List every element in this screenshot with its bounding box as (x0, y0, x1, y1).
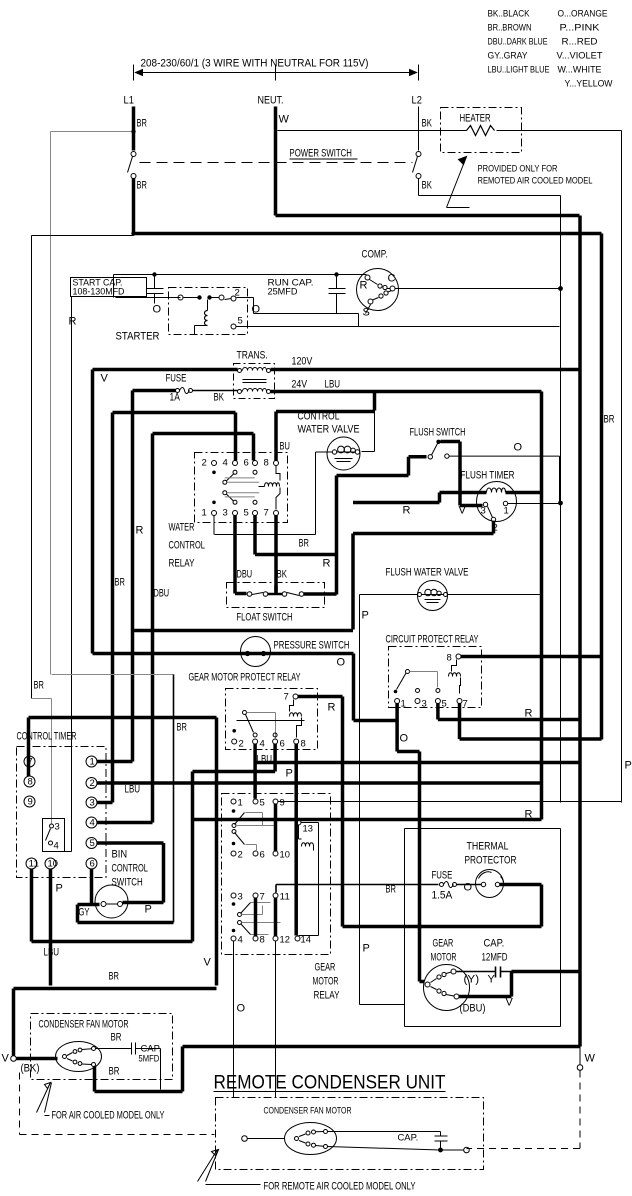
wire 120V left V (93, 370, 238, 654)
wire timer2 LBU long (97, 781, 542, 785)
svg-text:FLUSH SWITCH: FLUSH SWITCH (410, 427, 466, 439)
svg-text:R: R (323, 558, 331, 570)
wire pin3 DBU down (233, 516, 237, 586)
svg-text:BR: BR (177, 722, 187, 734)
svg-text:BK: BK (422, 118, 433, 130)
svg-text:4: 4 (238, 935, 243, 946)
wire W rail bottom to terminal (579, 1047, 581, 1065)
svg-text:BR: BR (137, 118, 147, 130)
svg-text:DBU: DBU (154, 588, 170, 600)
remote terminal left (242, 1136, 248, 1142)
junction BK O (558, 501, 563, 506)
svg-text:5: 5 (238, 316, 243, 327)
svg-text:V: V (506, 997, 514, 1009)
svg-text:COMP.: COMP. (362, 249, 388, 261)
wire NEUT W (274, 107, 278, 216)
timer terminal 7 (24, 756, 35, 768)
condenser fan motor (56, 1042, 102, 1072)
svg-text:BK: BK (277, 569, 288, 581)
wire L1 BR upper (132, 107, 136, 151)
svg-text:W...WHITE: W...WHITE (558, 65, 602, 76)
svg-text:1: 1 (401, 699, 406, 710)
wire 173 vertical (173, 675, 175, 923)
gear motor (424, 965, 470, 1011)
timer terminal 1 (86, 756, 97, 768)
power switch dashed linkage (140, 162, 413, 164)
wire timer6 to bin left (92, 869, 100, 905)
svg-text:12MFD: 12MFD (482, 952, 508, 964)
svg-text:R: R (360, 280, 368, 292)
protect relay bottom terminals (232, 739, 237, 744)
gear relay terminals row3 (231, 893, 236, 898)
starter contacts (178, 295, 183, 300)
circuit protect relay box (389, 647, 482, 708)
svg-text:(BK): (BK) (21, 1063, 40, 1075)
svg-text:LBU: LBU (325, 379, 341, 391)
svg-text:BK: BK (214, 392, 225, 404)
wire 7 to R rail (298, 697, 343, 927)
svg-text:5MFD: 5MFD (139, 1054, 160, 1065)
wire cap to W rail (512, 970, 580, 974)
wire to water relay pin4 (234, 413, 238, 461)
svg-text:BR: BR (109, 971, 119, 983)
svg-text:108-130MFD: 108-130MFD (73, 287, 125, 298)
svg-text:GY: GY (79, 907, 90, 919)
svg-text:Y...YELLOW: Y...YELLOW (565, 79, 613, 90)
svg-text:7: 7 (264, 508, 269, 519)
capacitor start cap (147, 275, 164, 304)
svg-text:STARTER: STARTER (116, 331, 160, 343)
svg-text:1: 1 (202, 508, 207, 519)
timer terminal 9 (24, 796, 35, 808)
gear motor protect relay box (226, 689, 318, 750)
rail BR vertical (600, 234, 604, 740)
wire timer4 (97, 821, 153, 825)
svg-text:6: 6 (260, 850, 265, 861)
svg-text:PROVIDED ONLY FOR: PROVIDED ONLY FOR (478, 164, 558, 175)
svg-text:4: 4 (90, 818, 95, 829)
svg-text:MOTOR: MOTOR (431, 952, 457, 964)
control water valve coil (327, 437, 360, 470)
svg-text:120V: 120V (292, 356, 313, 368)
wire timer1 thin to O node (508, 503, 560, 505)
svg-text:MOTOR: MOTOR (313, 976, 339, 988)
svg-text:R...RED: R...RED (562, 37, 598, 48)
svg-text:PROTECTOR: PROTECTOR (465, 855, 517, 867)
svg-text:P: P (362, 610, 369, 622)
wire gear relay 11 to 12 (274, 898, 278, 936)
float switch contacts (235, 586, 337, 597)
wire fuse BR row (276, 885, 439, 893)
svg-text:P: P (625, 760, 632, 772)
svg-text:1: 1 (238, 798, 243, 809)
wire rail LBU to coil 13 (194, 818, 542, 822)
svg-text:11: 11 (29, 859, 39, 870)
wire protect8 down to gear relay 14 (294, 744, 298, 936)
svg-text:(Y): (Y) (464, 974, 480, 986)
wire 2 to run cap line (237, 298, 359, 314)
svg-text:LBU: LBU (44, 947, 60, 959)
svg-text:9: 9 (28, 797, 33, 808)
wire thin tap left of L1 (51, 132, 134, 675)
wire V branch 412 (113, 413, 236, 803)
svg-text:3: 3 (90, 798, 95, 809)
label RUN CAP (268, 278, 314, 298)
svg-text:BU: BU (280, 441, 290, 453)
svg-text:3: 3 (223, 508, 228, 519)
label CAP 5MFD (139, 1044, 162, 1065)
svg-text:8: 8 (28, 777, 33, 788)
svg-text:4: 4 (223, 458, 228, 469)
svg-text:CONTROL: CONTROL (169, 540, 205, 552)
svg-text:2: 2 (239, 739, 244, 750)
svg-text:4: 4 (54, 841, 59, 852)
svg-text:1A: 1A (170, 392, 181, 404)
svg-text:Y: Y (488, 974, 496, 986)
wire V bus (14, 989, 217, 1056)
svg-text:12: 12 (280, 935, 290, 946)
water relay terminals top (212, 461, 217, 466)
svg-text:DBU..DARK BLUE: DBU..DARK BLUE (488, 37, 548, 48)
svg-text:FOR REMOTE AIR COOLED MODEL ON: FOR REMOTE AIR COOLED MODEL ONLY (264, 1181, 416, 1193)
svg-text:REMOTE CONDENSER UNIT: REMOTE CONDENSER UNIT (214, 1073, 446, 1094)
condenser box (31, 1014, 173, 1080)
heater resistor element (467, 126, 495, 136)
wire cpr7 to BR rail (460, 704, 602, 740)
switch contact L1 (131, 152, 136, 157)
gear motor section thin box (405, 829, 561, 1027)
svg-text:8: 8 (301, 739, 306, 750)
arrow air cooled (37, 1083, 52, 1113)
wire 13 jog (299, 823, 319, 936)
wire L2 BK upper (418, 107, 420, 151)
svg-text:LBU: LBU (125, 784, 141, 796)
dashed W to remote (467, 1071, 581, 1149)
svg-text:CAP.: CAP. (398, 1133, 419, 1144)
wire flush switch pivot to flush timer V (441, 442, 483, 506)
svg-text:GEAR MOTOR PROTECT RELAY: GEAR MOTOR PROTECT RELAY (189, 672, 301, 684)
svg-text:HEATER: HEATER (460, 113, 491, 125)
wire gear relay pin12 down (275, 941, 277, 1098)
svg-text:GEAR: GEAR (315, 962, 336, 974)
svg-text:BR: BR (115, 577, 125, 589)
wire protect4 down to gear relay 5 (253, 744, 257, 799)
starter box (169, 288, 248, 335)
svg-text:L1: L1 (124, 95, 134, 107)
remote unit box (216, 1098, 484, 1170)
bin control switch (95, 885, 128, 918)
svg-text:3: 3 (481, 506, 486, 517)
svg-text:7: 7 (260, 892, 265, 903)
svg-text:O: O (237, 1003, 246, 1015)
svg-text:R: R (525, 809, 533, 821)
svg-text:POWER SWITCH: POWER SWITCH (290, 148, 352, 160)
wire fan lower (95, 1047, 183, 1092)
svg-text:BR: BR (109, 1066, 120, 1078)
svg-text:3: 3 (238, 892, 243, 903)
wire L1 BR lower (132, 179, 136, 234)
svg-text:P...PINK: P...PINK (560, 23, 601, 34)
wire BR bus top (134, 232, 602, 236)
svg-text:FLUSH TIMER: FLUSH TIMER (461, 470, 515, 482)
label CAP 12MFD (482, 938, 508, 964)
switch contact L2 (416, 152, 421, 157)
svg-text:O: O (514, 442, 523, 454)
svg-text:R: R (403, 505, 411, 517)
wire R riser to flush switch (335, 476, 339, 595)
gear relay internals arms (232, 809, 281, 934)
timer terminal 3 (86, 797, 97, 809)
timer terminal 8 (24, 776, 35, 788)
junction L1 tap (131, 129, 135, 133)
control timer box (17, 747, 107, 878)
timer terminal 2 (86, 778, 97, 790)
svg-text:O: O (464, 882, 473, 894)
wire cpr8 right thick (461, 655, 602, 659)
svg-text:R: R (69, 316, 77, 328)
capacitor run cap (329, 275, 346, 314)
wire flush switch O out (449, 456, 559, 502)
svg-text:V...VIOLET: V...VIOLET (557, 51, 603, 62)
svg-text:8: 8 (447, 653, 452, 664)
svg-text:CONTROL: CONTROL (112, 863, 148, 875)
rail W vertical (578, 216, 582, 1047)
svg-text:RELAY: RELAY (169, 558, 195, 570)
heater feed wire thin (278, 131, 622, 803)
water control relay box (195, 453, 288, 523)
svg-text:7: 7 (284, 692, 289, 703)
wire thin outer left (32, 236, 134, 699)
svg-text:RELAY: RELAY (314, 990, 340, 1002)
svg-text:1: 1 (504, 506, 509, 517)
svg-text:FOR AIR COOLED MODEL ONLY: FOR AIR COOLED MODEL ONLY (52, 1110, 165, 1122)
wire timer3 (97, 801, 113, 805)
svg-text:BR: BR (111, 1032, 122, 1044)
svg-text:BR..BROWN: BR..BROWN (488, 23, 532, 34)
svg-text:BR: BR (604, 414, 615, 426)
label GEAR MOTOR RELAY (313, 962, 340, 1002)
label CONTROL WATER VALVE (298, 411, 360, 436)
svg-text:6: 6 (280, 739, 285, 750)
dashed V to remote (20, 1073, 215, 1135)
svg-text:V: V (204, 957, 212, 969)
svg-text:WATER VALVE: WATER VALVE (298, 424, 360, 436)
label GEAR MOTOR (431, 938, 457, 964)
svg-text:GY..GRAY: GY..GRAY (488, 51, 529, 62)
remote fan motor (248, 1123, 337, 1155)
svg-text:R: R (136, 525, 144, 537)
svg-text:O...ORANGE: O...ORANGE (558, 9, 608, 20)
wire cpr1 down (397, 704, 419, 982)
svg-text:9: 9 (280, 798, 285, 809)
svg-text:C: C (388, 273, 396, 285)
svg-text:O: O (153, 304, 162, 316)
svg-text:2: 2 (90, 778, 95, 789)
svg-text:THERMAL: THERMAL (467, 841, 509, 853)
svg-text:7: 7 (28, 757, 33, 768)
wire gear relay 9 to 10 (274, 804, 278, 852)
svg-text:V: V (101, 373, 109, 385)
svg-text:8: 8 (264, 458, 269, 469)
wire gear relay 9 row thin (275, 804, 277, 813)
svg-text:CONTROL TIMER: CONTROL TIMER (17, 731, 77, 743)
svg-text:5: 5 (244, 508, 249, 519)
wire cpr5 to W rail (438, 704, 580, 720)
wire comp C to BK rail (395, 288, 560, 290)
svg-text:(DBU): (DBU) (460, 1003, 486, 1015)
svg-text:6: 6 (90, 859, 95, 870)
svg-text:4: 4 (260, 739, 265, 750)
wire LBU drop to water relay pin8 (373, 392, 377, 411)
svg-text:24V: 24V (292, 379, 308, 391)
svg-text:DBU: DBU (237, 569, 253, 581)
svg-text:L2: L2 (412, 95, 422, 107)
timer terminal 10 (45, 858, 58, 870)
gear relay terminals row1 (231, 799, 236, 804)
wire timer2 to BK branch (133, 522, 494, 631)
svg-text:13: 13 (303, 824, 313, 835)
capacitor 12MFD (456, 967, 512, 978)
label THERMAL PROTECTOR (465, 841, 517, 867)
wire protect4 LBU row to W rail (255, 761, 579, 765)
svg-text:FLOAT SWITCH: FLOAT SWITCH (237, 612, 293, 624)
gear relay terminals row4 (231, 936, 236, 941)
svg-text:O: O (400, 733, 409, 745)
wire 24V right LBU rail (271, 392, 542, 820)
svg-text:CONDENSER FAN MOTOR: CONDENSER FAN MOTOR (39, 1019, 129, 1031)
terminal V (11, 1056, 17, 1062)
svg-text:CONTROL: CONTROL (298, 411, 340, 423)
svg-text:10: 10 (280, 850, 290, 861)
svg-text:V: V (459, 505, 467, 517)
water relay internals (212, 466, 280, 510)
svg-text:P: P (56, 883, 63, 895)
start cap label box (71, 278, 147, 297)
svg-text:2: 2 (202, 458, 207, 469)
svg-text:BR: BR (386, 884, 396, 896)
float switch box (227, 583, 325, 608)
timer terminal 6 (86, 858, 97, 870)
gear relay terminal 13 (296, 820, 301, 825)
svg-text:PRESSURE SWITCH: PRESSURE SWITCH (274, 640, 350, 652)
svg-text:R: R (525, 708, 533, 720)
svg-text:W: W (279, 114, 290, 126)
svg-text:GEAR: GEAR (433, 938, 454, 950)
gear relay terminals row2 (231, 851, 236, 856)
svg-text:TRANS.: TRANS. (237, 350, 268, 362)
wire timer5 to bin (97, 843, 164, 903)
svg-text:BR: BR (34, 680, 44, 692)
wire timer coil to LBU rail (353, 493, 542, 503)
flush water valve (418, 581, 448, 611)
wire motor lower to riser (459, 972, 512, 997)
wire NEUT to W rail (276, 214, 580, 218)
wire pin1 BR down (213, 516, 215, 535)
wire to water relay pin6 (252, 434, 256, 461)
wire pin7 BK down (274, 516, 278, 594)
remote capacitor (328, 1132, 448, 1151)
svg-text:5: 5 (442, 699, 447, 710)
pressure switch feed 653 (93, 654, 398, 721)
svg-text:FUSE: FUSE (432, 870, 453, 882)
thermal protector (476, 870, 504, 898)
label BIN CONTROL SWITCH (112, 849, 148, 889)
svg-text:WATER: WATER (169, 522, 195, 534)
cpr bottom terminals (395, 699, 400, 704)
svg-text:8: 8 (260, 935, 265, 946)
wire V to fan (17, 1057, 58, 1061)
svg-text:3: 3 (422, 699, 427, 710)
wire R thin to timer (65, 297, 72, 852)
svg-text:BK: BK (422, 180, 433, 192)
wire bin GY to 173 (78, 905, 174, 923)
svg-text:O: O (337, 657, 346, 669)
wire L2 BK lower (418, 179, 420, 196)
protect relay internals (232, 700, 304, 739)
svg-text:W: W (585, 1053, 596, 1065)
heater box (441, 108, 522, 153)
starter rail (114, 275, 367, 298)
svg-text:FUSE: FUSE (166, 373, 187, 385)
svg-text:1.5A: 1.5A (432, 890, 453, 902)
svg-text:CONDENSER FAN MOTOR: CONDENSER FAN MOTOR (264, 1106, 352, 1117)
svg-text:14: 14 (301, 935, 311, 946)
water relay terminals bottom (212, 511, 217, 516)
svg-text:P: P (363, 943, 370, 955)
wire gear relay pin4 down (233, 941, 235, 1098)
svg-text:CIRCUIT PROTECT RELAY: CIRCUIT PROTECT RELAY (386, 634, 479, 646)
gray wire jog to 173 (52, 674, 174, 676)
svg-text:5: 5 (260, 798, 265, 809)
wire branch 433 (153, 434, 254, 823)
svg-text:CAP.: CAP. (484, 938, 505, 950)
wire protect6 to 192 (193, 744, 276, 942)
wire protector to R corner (343, 885, 542, 927)
svg-text:1: 1 (90, 757, 95, 768)
gear relay coil (302, 843, 314, 847)
remote wire bottom (328, 1147, 464, 1151)
wire V bottom bus (183, 1045, 580, 1049)
timer terminal 4 (86, 817, 97, 829)
svg-text:R: R (328, 702, 336, 714)
svg-text:BR: BR (137, 180, 147, 192)
svg-text:7: 7 (463, 699, 468, 710)
timer inner switch box (43, 819, 65, 852)
wire 5 and S common (237, 314, 560, 327)
svg-text:FLUSH WATER VALVE: FLUSH WATER VALVE (386, 567, 469, 579)
flush timer (477, 482, 517, 534)
svg-text:3: 3 (55, 822, 60, 833)
wire timer11 LBU down (32, 869, 193, 942)
svg-text:P: P (286, 768, 293, 780)
svg-text:BIN: BIN (112, 849, 128, 861)
wire pin5 R down to 554 (255, 516, 337, 555)
wire motor left feed (420, 980, 425, 984)
legend color codes (488, 9, 613, 90)
svg-text:10: 10 (48, 859, 58, 870)
timer terminal 11 (26, 858, 39, 870)
label WATER CONTROL RELAY (169, 522, 205, 570)
wire timer1 to BK riser (97, 760, 133, 764)
compressor COMP (357, 249, 399, 319)
svg-text:NEUT.: NEUT. (258, 95, 284, 107)
wire BK to right rail (419, 196, 561, 803)
wire timer10 down (49, 869, 53, 986)
heater callout arrow (447, 157, 470, 208)
wire valve left BR lead (215, 452, 333, 535)
svg-text:SWITCH: SWITCH (112, 877, 143, 889)
supply span arrow (134, 65, 419, 81)
